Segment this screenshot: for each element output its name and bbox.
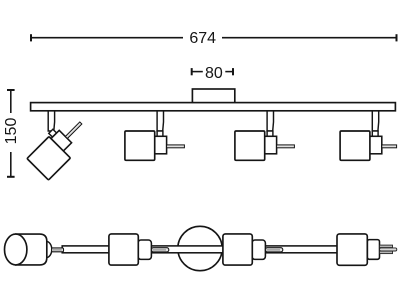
spot 2 pin (bottom view) xyxy=(151,248,168,252)
dimension 674: left tick xyxy=(30,34,32,41)
dimension 674: right tick xyxy=(396,34,398,41)
svg-text:674: 674 xyxy=(189,30,216,47)
spot 3 head xyxy=(235,131,265,160)
spot 4 socket (bottom view) xyxy=(367,240,379,260)
spot 3 stem (front view) xyxy=(267,111,273,131)
dimension 674: label xyxy=(189,30,216,47)
spot 1 socket xyxy=(50,130,71,151)
dimension 80: right line segment xyxy=(225,71,233,73)
spot 1 head xyxy=(27,137,70,180)
spot 1 stem (front view) xyxy=(48,111,54,131)
spot 1 cylinder end cap ellipse (bottom view) xyxy=(5,234,27,265)
spot 4 head (bottom view) xyxy=(337,234,367,265)
spot 3 pin inner bar (bottom view) xyxy=(267,249,281,250)
spot 2 head (bottom view) xyxy=(109,234,138,265)
svg-text:80: 80 xyxy=(205,65,223,82)
mounting bar (front view) xyxy=(31,103,396,111)
dimension 150: bottom tick xyxy=(7,176,15,178)
spot 3 socket (bottom view) xyxy=(252,240,265,259)
spot 1 cylinder body (bottom view) xyxy=(16,234,47,265)
dimension 150: lower line segment xyxy=(10,152,12,177)
dimension 150: label (rotated) xyxy=(3,118,20,145)
dimension 80: label xyxy=(205,65,223,82)
spot 2 joint xyxy=(157,131,163,136)
spot 1 pin (bottom view) xyxy=(52,248,64,252)
canopy circle (bottom view) xyxy=(178,226,222,270)
dimension 80: left tick xyxy=(191,68,193,75)
dimension 150: upper line segment xyxy=(10,90,12,113)
spot 1 pin inner bar (bottom view) xyxy=(52,249,62,250)
spot 4 stem (front view) xyxy=(372,111,378,131)
spot 1 joint xyxy=(49,129,57,137)
ceiling canopy plate (front view) xyxy=(192,89,234,103)
spot 3 joint xyxy=(267,131,273,136)
svg-text:150: 150 xyxy=(3,118,20,145)
dimension 674: left line segment xyxy=(31,37,183,39)
spot 2 socket xyxy=(154,136,166,154)
spot 2 socket (bottom view) xyxy=(138,240,151,259)
spot 4 plug upper prong (bottom view) xyxy=(380,245,393,248)
spot 4 rod handle xyxy=(382,145,397,148)
spot 1 socket bump (bottom view) xyxy=(40,241,52,257)
spot 1 rotated assembly (joint, socket, head, rod) xyxy=(25,112,93,180)
spot 4 head xyxy=(340,131,370,160)
spot 4 joint xyxy=(372,131,378,136)
dimension 150: top tick xyxy=(7,89,15,91)
dimension 674: right line segment xyxy=(222,37,397,39)
spot 3 rod handle xyxy=(277,145,295,148)
spot 2 rod handle xyxy=(167,145,185,148)
spot 2 head xyxy=(125,131,155,160)
spot 4 socket xyxy=(369,136,381,154)
spot 2 stem (front view) xyxy=(157,111,163,131)
spot 4 plug lower prong (bottom view) xyxy=(380,251,393,254)
spot 4 plug center pin (bottom view) xyxy=(380,248,397,251)
spot 3 socket xyxy=(264,136,276,154)
mounting bar (bottom view) xyxy=(62,246,338,253)
spot 1 rod handle xyxy=(65,122,82,139)
spot 3 pin (bottom view) xyxy=(265,248,282,252)
dimension 80: left line segment xyxy=(192,71,203,73)
dimension 80: right tick xyxy=(232,68,234,75)
spot 2 pin inner bar (bottom view) xyxy=(153,249,167,250)
spot 3 head (bottom view) xyxy=(223,234,252,265)
